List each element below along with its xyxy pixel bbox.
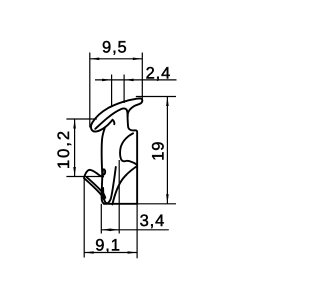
dimension 10,2: arrow top [73, 119, 76, 129]
profile: stem left edge down to foot corner [102, 127, 105, 203]
dimension 9,1: extension line right [136, 204, 138, 258]
dimension 19: dimension line [166, 97, 168, 204]
profile outer: beak tip + top edge sweep + nose + concave + notch + elbow + right edge + bottom edge [91, 98, 142, 203]
dimension 3,4: extension line right [118, 160, 120, 234]
dimension 10,2: dimension line [74, 119, 76, 177]
svg-text:9,5: 9,5 [102, 39, 128, 57]
dimension 9,5: dimension line [90, 58, 143, 60]
profile: lower lip underside outer diagonal [84, 178, 104, 199]
profile: lower lip inner diagonal [87, 177, 106, 198]
svg-text:9,1: 9,1 [95, 236, 121, 254]
svg-text:3,4: 3,4 [140, 212, 166, 230]
profile: chamber diagonal wall [112, 166, 137, 204]
dimension 9,5: arrow left [90, 58, 100, 61]
dimension 2,4: arrow left (outside, pointing right) [102, 79, 112, 82]
dimension 19 right: extension line top [136, 97, 176, 204]
dimension 10,2: extension line bottom [66, 176, 103, 178]
profile: lower lip hump [84, 170, 103, 178]
svg-text:19: 19 [150, 141, 168, 161]
dimension 2,4 top right: extension line left [95, 75, 177, 108]
profile: stem right edge into foot hook [103, 167, 116, 203]
svg-text:2,4: 2,4 [146, 64, 172, 82]
dimension 2,4: dimension line [95, 79, 177, 81]
dimension 19: arrow top [166, 97, 169, 107]
dimension 3,4: dimension line [101, 229, 169, 231]
dimension 9,5: extension line right [141, 53, 143, 100]
dimension 3,4 bottom: extension line left [101, 160, 169, 234]
dimension 2,4: arrow right (outside, pointing left) [124, 79, 134, 82]
dimension 10,2: arrow bottom [73, 167, 76, 177]
profile: stem curl at lip junction [103, 169, 105, 174]
profile: arm underside (beak tip to under-nose) [95, 108, 127, 128]
dimension 19: extension line bottom [137, 203, 176, 205]
dimension 3,4: arrow right (inside, pointing right) [110, 229, 120, 232]
dimension 9,1: dimension line [84, 252, 137, 254]
dimension 9,5: arrow right [133, 58, 143, 61]
dimension 9,5 top: extension line left [90, 53, 143, 128]
dimension 2,4: extension line right [123, 75, 125, 104]
dimension 10,2 left: extension line top [66, 119, 103, 177]
svg-text:10,2: 10,2 [55, 129, 73, 169]
dimension 3,4: arrow left (inside, pointing left) [101, 229, 111, 232]
profile: D web arc from elbow [120, 133, 137, 164]
profile: beak right edge rising to armpit crest with spur [97, 120, 114, 132]
dimension 9,1: arrow left [84, 251, 94, 254]
seal profile outline: top arm, nose, right edge, bottom [84, 98, 142, 204]
dimension 19: arrow bottom [166, 194, 169, 204]
dimension 9,1: arrow right [128, 251, 138, 254]
dimension 9,1 bottom: extension line left [84, 177, 137, 258]
